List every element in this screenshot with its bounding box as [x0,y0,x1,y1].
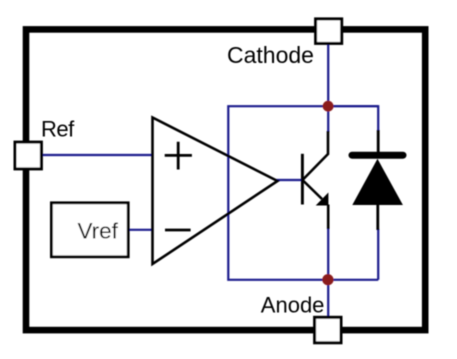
transistor Q1 emitter [303,181,322,200]
wire: Ref terminal to op-amp + input [41,154,153,156]
node: bottom junction dot [322,274,333,285]
wire: cathode terminal drop to top node [327,42,329,106]
op-amp + input symbol [165,142,192,170]
wire: emitter to bottom node [327,228,329,280]
op-amp - input symbol [165,229,191,232]
wire: supply rail box (top rail, left vertical, bottom rail) [228,106,378,280]
svg-text:Ref: Ref [41,117,75,142]
wire: op-amp output to transistor base [276,179,303,181]
wire: Vref box to op-amp - input [128,229,153,231]
wire: diode bottom to bottom rail [377,229,379,280]
transistor Q1 emitter arrowhead [316,193,329,206]
node: top junction dot [323,101,334,112]
transistor Q1 emitter lead [327,205,330,230]
transistor Q1 collector [303,131,328,180]
Vref box [51,203,128,257]
terminal: Anode pad [315,317,341,343]
frame: thick outer boundary [26,29,425,330]
svg-text:Cathode: Cathode [227,42,314,68]
diode D1 cathode bar [352,152,403,159]
diode D1 triangle [352,159,403,205]
wire: top node to diode top [328,106,378,131]
svg-text:Anode: Anode [261,293,325,318]
wire: collector stub from top node [327,106,329,132]
transistor Q1 base bar [301,154,304,205]
terminal: Ref pad [15,142,41,169]
diode D1 top lead [377,130,380,153]
diode D1 bottom lead [376,205,379,230]
terminal: Cathode pad [316,19,342,44]
wire: bottom node to anode terminal [327,280,329,318]
op-amp U1 triangle [153,118,278,265]
svg-text:Vref: Vref [78,219,119,244]
